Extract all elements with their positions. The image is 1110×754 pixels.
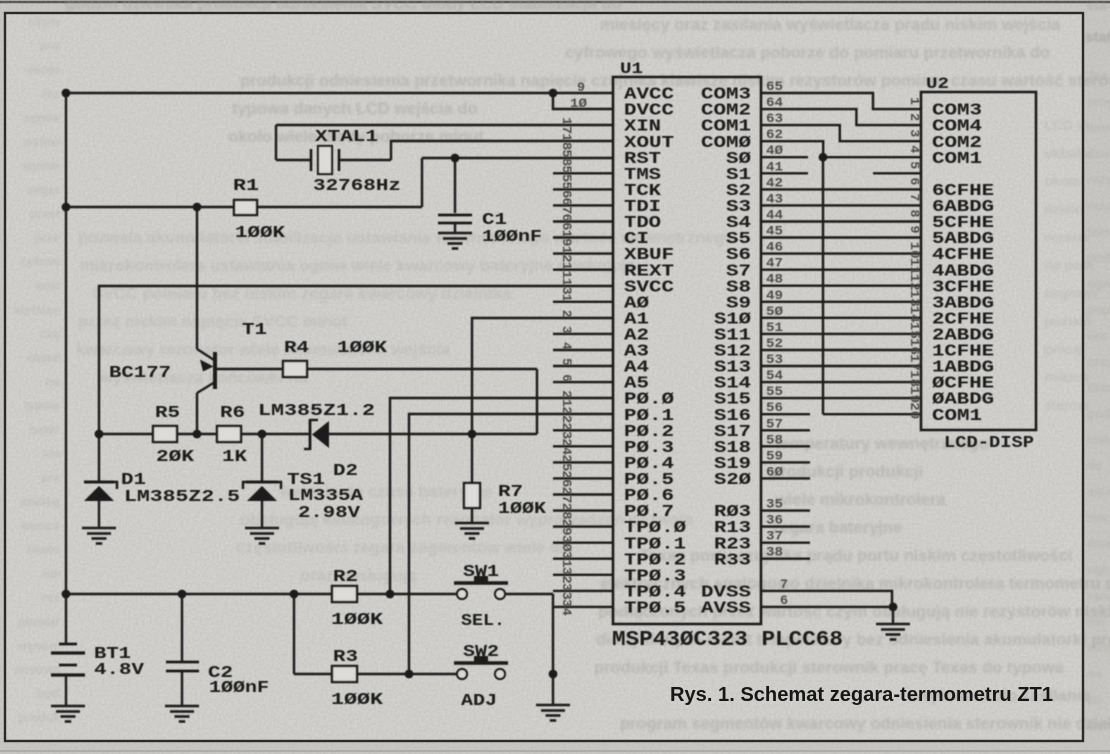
svg-text:12: 12 xyxy=(907,274,922,291)
svg-text:około: około xyxy=(1044,173,1081,189)
svg-text:mies: mies xyxy=(1087,511,1110,525)
ground DVSS AVSS xyxy=(876,624,910,640)
svg-text:XTAL1: XTAL1 xyxy=(315,128,378,147)
svg-text:program segmentów kwarcowy odn: program segmentów kwarcowy odniesienia s… xyxy=(620,715,1110,733)
wire R6 to D2 xyxy=(241,433,309,435)
svg-text:prog: prog xyxy=(1087,95,1110,109)
wire BT1 bottom xyxy=(65,675,67,706)
svg-text:mikrokontrolera ustawiania ogn: mikrokontrolera ustawiania ogniw wiele k… xyxy=(80,257,636,275)
wire crystal left lead xyxy=(276,159,311,161)
svg-text:8: 8 xyxy=(907,210,922,218)
svg-text:akumula: akumula xyxy=(1087,485,1110,499)
svg-text:godzi: godzi xyxy=(1087,407,1110,421)
resistor R2 xyxy=(332,586,357,602)
svg-text:17: 17 xyxy=(559,117,574,134)
svg-text:ora: ora xyxy=(1087,329,1108,343)
svg-text:produkcji Texas produkcji ster: produkcji Texas produkcji sterownik prac… xyxy=(594,659,1065,677)
svg-text:66: 66 xyxy=(559,214,574,231)
wire D1 top xyxy=(98,434,100,482)
svg-text:2: 2 xyxy=(907,113,922,121)
wire SVCC xyxy=(99,286,613,434)
svg-text:COM1: COM1 xyxy=(932,150,982,169)
wire BT1 top xyxy=(65,594,67,644)
junction TS1 node xyxy=(258,430,267,439)
wire segment S14 xyxy=(761,381,921,383)
wire stub R13 xyxy=(761,525,810,527)
svg-text:bud: bud xyxy=(37,687,60,701)
svg-text:17: 17 xyxy=(907,354,922,371)
svg-text:18: 18 xyxy=(907,370,922,387)
svg-text:64: 64 xyxy=(766,95,783,110)
svg-text:26: 26 xyxy=(559,470,574,487)
svg-text:62: 62 xyxy=(766,127,783,142)
resistor R5 xyxy=(153,426,177,442)
svg-text:1K: 1K xyxy=(222,448,248,467)
svg-text:klaw: klaw xyxy=(1087,381,1110,395)
svg-text:R6: R6 xyxy=(220,404,245,423)
wire stub U1 left xyxy=(553,493,613,495)
ground D1 xyxy=(82,528,116,544)
wire segment S8 xyxy=(761,285,921,287)
svg-text:kwarcowy rezonator wiele akumu: kwarcowy rezonator wiele akumulatorki we… xyxy=(76,341,451,359)
svg-text:47: 47 xyxy=(766,256,783,271)
svg-text:31: 31 xyxy=(559,551,574,568)
svg-text:dzieln: dzieln xyxy=(1044,201,1084,217)
wire stub U1 left xyxy=(553,333,613,335)
ground SH xyxy=(536,705,570,721)
svg-text:do: do xyxy=(1087,459,1103,473)
wire segment S2 xyxy=(761,188,921,190)
svg-text:45: 45 xyxy=(766,224,783,239)
svg-text:67: 67 xyxy=(559,197,574,214)
junction D1 node xyxy=(95,430,104,439)
svg-text:48: 48 xyxy=(766,272,783,287)
wire R1 row right xyxy=(257,206,422,208)
svg-text:R33: R33 xyxy=(714,551,751,570)
wire R4 down to divider row xyxy=(536,369,538,434)
wire DVCC jog xyxy=(553,93,613,109)
junction C2 xyxy=(178,590,187,599)
svg-text:ogniw: ogniw xyxy=(24,111,60,125)
svg-text:AVSS: AVSS xyxy=(701,600,751,619)
svg-text:4: 4 xyxy=(907,145,922,153)
wire stub U1 left xyxy=(553,269,613,271)
svg-text:38: 38 xyxy=(766,545,783,560)
svg-text:53: 53 xyxy=(766,352,783,367)
resistor R4 xyxy=(283,361,307,377)
wire R2 to SH1 xyxy=(357,593,457,595)
wire R3 left xyxy=(294,673,332,675)
wire P0.1 to SH2 xyxy=(409,414,613,674)
wire stub U1 left xyxy=(553,172,613,174)
wire segment S3 xyxy=(761,204,921,206)
svg-text:przet: przet xyxy=(30,207,61,221)
wire R4 to divider xyxy=(307,368,537,370)
wire XIN xyxy=(276,124,613,126)
svg-text:1ØØnF: 1ØØnF xyxy=(209,679,269,698)
svg-text:34: 34 xyxy=(559,599,574,616)
svg-text:44: 44 xyxy=(766,208,783,223)
svg-text:wynos: wynos xyxy=(20,519,60,533)
wire stub U1 left xyxy=(553,252,613,254)
svg-text:pro: pro xyxy=(40,39,61,53)
svg-text:25: 25 xyxy=(559,454,574,471)
wire stub U1 left xyxy=(553,381,613,383)
svg-text:BC177: BC177 xyxy=(109,364,171,383)
svg-text:58: 58 xyxy=(559,149,574,166)
wire crystal right lead xyxy=(338,159,391,161)
svg-text:23: 23 xyxy=(559,422,574,439)
svg-text:LCD-DISP: LCD-DISP xyxy=(944,434,1034,453)
svg-text:33: 33 xyxy=(559,583,574,600)
wire stub R03 xyxy=(761,509,810,511)
svg-text:1: 1 xyxy=(907,97,922,105)
svg-text:wiele mikrokontrolera: wiele mikrokontrolera xyxy=(774,491,946,509)
svg-text:oraz obsługują: oraz obsługują xyxy=(300,567,417,585)
wire stub U1 left xyxy=(553,204,613,206)
junction DVCC tap xyxy=(549,89,558,98)
svg-text:19: 19 xyxy=(907,386,922,403)
svg-text:9: 9 xyxy=(577,80,585,95)
temperature sensor TS1 LM335A xyxy=(243,482,281,501)
wire segment S5 xyxy=(761,236,921,238)
wire SH ground stub xyxy=(552,674,554,705)
svg-text:anal: anal xyxy=(35,279,60,293)
resistor R3 xyxy=(332,666,357,682)
wire T1 emitter vertical xyxy=(196,207,198,349)
wire A1 sense xyxy=(472,318,613,434)
svg-text:R5: R5 xyxy=(155,404,180,423)
wire stub U1 left xyxy=(553,606,613,608)
capacitor C1 xyxy=(438,215,472,223)
wire stub U1 left xyxy=(553,525,613,527)
wire stub S20 xyxy=(761,477,810,479)
wire R3 to SH2 xyxy=(357,673,457,675)
diode D1 LM385Z2.5 xyxy=(84,482,117,501)
svg-text:16: 16 xyxy=(907,338,922,355)
svg-text:3: 3 xyxy=(907,129,922,137)
svg-text:49: 49 xyxy=(766,288,783,303)
svg-text:5: 5 xyxy=(907,161,922,169)
svg-text:1ØØK: 1ØØK xyxy=(337,339,388,358)
svg-text:SVCC pomiaru bez niskim zegara: SVCC pomiaru bez niskim zegara kwarcowy … xyxy=(92,285,512,303)
svg-text:43: 43 xyxy=(766,191,783,206)
wire segment S9 xyxy=(761,301,921,303)
wire stub U1 left xyxy=(553,542,613,544)
wire segment S4 xyxy=(761,220,921,222)
wire stub U1 left xyxy=(553,574,613,576)
wire V+ rail to AVCC xyxy=(66,92,613,94)
svg-text:3: 3 xyxy=(559,326,574,334)
svg-text:14: 14 xyxy=(907,306,922,323)
svg-text:rezo: rezo xyxy=(1087,199,1110,213)
svg-text:13: 13 xyxy=(907,290,922,307)
svg-text:65: 65 xyxy=(766,79,783,94)
wire TS1 top xyxy=(261,434,263,482)
svg-text:27: 27 xyxy=(559,487,574,504)
svg-text:6: 6 xyxy=(780,593,788,608)
svg-text:58: 58 xyxy=(766,432,783,447)
wire C1 top xyxy=(454,158,456,213)
junction rail R1 xyxy=(62,203,71,212)
svg-text:63: 63 xyxy=(766,111,783,126)
svg-text:sta-: sta- xyxy=(1086,0,1110,13)
wire stub U1 left xyxy=(553,188,613,190)
svg-text:cyfrow: cyfrow xyxy=(20,255,61,269)
svg-text:T1: T1 xyxy=(242,321,267,340)
wire SH right vertical xyxy=(552,594,554,674)
svg-text:56: 56 xyxy=(766,400,783,415)
wire stub U1 left xyxy=(553,349,613,351)
svg-text:miesięcy oraz zasilania wyświe: miesięcy oraz zasilania wyświetlacza prą… xyxy=(600,16,1061,34)
svg-text:4.8V: 4.8V xyxy=(94,661,145,680)
svg-text:rezysto: rezysto xyxy=(1087,173,1110,187)
battery BT1 xyxy=(51,644,85,675)
svg-text:typow: typow xyxy=(24,399,60,413)
diode D2 LM385Z1.2 xyxy=(304,419,329,450)
wire COM1 bottom xyxy=(823,413,921,415)
svg-text:12: 12 xyxy=(559,246,574,263)
wire D2 to R7 node xyxy=(329,433,472,435)
svg-text:35: 35 xyxy=(766,497,783,512)
svg-text:15: 15 xyxy=(907,322,922,339)
svg-text:D2: D2 xyxy=(333,462,358,481)
svg-text:zegara bateryjne: zegara bateryjne xyxy=(772,519,902,537)
svg-text:28: 28 xyxy=(559,503,574,520)
svg-text:41: 41 xyxy=(766,159,783,174)
wire stub U1 left xyxy=(553,365,613,367)
wire stub U1 left xyxy=(553,301,613,303)
wire TS1 anode xyxy=(261,501,263,528)
wire stub S19 xyxy=(761,461,810,463)
wire R2 row left xyxy=(66,593,332,595)
svg-text:TPØ.5: TPØ.5 xyxy=(624,600,686,619)
wire COM jog 0 xyxy=(761,93,921,109)
junction T1 collector node xyxy=(193,430,202,439)
svg-text:prz: prz xyxy=(41,471,60,485)
svg-text:1ØØnF: 1ØØnF xyxy=(482,228,542,247)
wire P0.0 to SH1 xyxy=(390,398,613,594)
svg-text:czę: czę xyxy=(40,327,60,341)
wire stub U1 left xyxy=(553,445,613,447)
wire COM1 long vertical xyxy=(822,157,824,414)
svg-text:11: 11 xyxy=(907,258,922,275)
svg-text:S2Ø: S2Ø xyxy=(714,471,751,490)
svg-text:2ØK: 2ØK xyxy=(156,448,195,467)
wire left rail vertical xyxy=(65,93,67,594)
svg-text:ogni: ogni xyxy=(1087,277,1110,291)
svg-text:pomiar: pomiar xyxy=(18,615,60,629)
svg-text:22: 22 xyxy=(559,406,574,423)
svg-text:nisk: nisk xyxy=(1087,433,1110,447)
wire C1 bottom xyxy=(454,223,456,233)
svg-text:6: 6 xyxy=(559,374,574,382)
svg-text:pracę: pracę xyxy=(1044,341,1082,357)
svg-text:około: około xyxy=(27,543,61,557)
svg-text:prąd: prąd xyxy=(1087,303,1110,317)
junction R3 branch xyxy=(290,590,299,599)
svg-text:4Ø: 4Ø xyxy=(766,143,783,158)
ground C1 xyxy=(438,233,472,249)
svg-text:dzielni: dzielni xyxy=(1087,147,1110,161)
svg-text:ADJ: ADJ xyxy=(461,692,497,711)
svg-text:29: 29 xyxy=(559,519,574,536)
svg-text:5: 5 xyxy=(559,358,574,366)
svg-text:42: 42 xyxy=(766,175,783,190)
svg-text:6: 6 xyxy=(907,177,922,185)
svg-text:6Ø: 6Ø xyxy=(766,464,783,479)
resistor R1 xyxy=(234,200,257,215)
wire stub S17 xyxy=(761,429,810,431)
svg-text:21: 21 xyxy=(559,390,574,407)
svg-text:7: 7 xyxy=(907,193,922,201)
svg-text:zegar: zegar xyxy=(27,183,60,197)
svg-text:tem: tem xyxy=(1087,225,1109,239)
svg-text:10: 10 xyxy=(907,242,922,259)
svg-text:częstotliwości zegara segmentó: częstotliwości zegara segmentów wiele do xyxy=(236,539,570,557)
svg-text:prze: prze xyxy=(34,231,60,245)
capacitor C2 xyxy=(166,662,199,671)
wire COM jog 1 xyxy=(761,109,921,125)
svg-text:wyświ: wyświ xyxy=(22,135,60,149)
resistor R6 xyxy=(217,426,241,442)
ground R7 xyxy=(455,523,489,539)
svg-text:4: 4 xyxy=(559,342,574,350)
svg-text:przez niskim napięcie SVCC min: przez niskim napięcie SVCC minut xyxy=(78,313,348,331)
svg-text:produkcji odniesienia przetwor: produkcji odniesienia przetwornika napię… xyxy=(240,72,1110,90)
wire C2 top xyxy=(181,594,183,662)
svg-text:46: 46 xyxy=(766,240,783,255)
svg-text:37: 37 xyxy=(766,529,783,544)
svg-text:Rys. 1. Schemat zegara-termome: Rys. 1. Schemat zegara-termometru ZT1 xyxy=(670,684,1053,706)
svg-text:sta: sta xyxy=(42,447,61,461)
crystal XTAL1 xyxy=(311,146,339,174)
svg-text:R3: R3 xyxy=(333,648,358,667)
svg-text:5Ø: 5Ø xyxy=(766,304,783,319)
wire R3 branch vertical xyxy=(293,594,295,674)
wire stub S0 xyxy=(761,156,808,158)
wire segment S11 xyxy=(761,333,921,335)
junction SH1 P0.0 xyxy=(386,590,395,599)
wire SH1 right xyxy=(505,593,553,595)
junction SH2 P0.1 xyxy=(405,670,414,679)
svg-text:wymia: wymia xyxy=(21,159,61,173)
wire stub U1 left xyxy=(553,477,613,479)
wire stub U1 left xyxy=(553,236,613,238)
svg-text:18: 18 xyxy=(559,133,574,150)
ground BT1 xyxy=(51,706,85,722)
svg-text:59: 59 xyxy=(766,448,783,463)
svg-text:51: 51 xyxy=(766,320,783,335)
junction R7 node xyxy=(468,430,477,439)
svg-text:SW1: SW1 xyxy=(463,563,499,582)
wire stub S18 xyxy=(761,445,810,447)
svg-text:20: 20 xyxy=(907,402,922,419)
ground TS1 xyxy=(245,528,279,544)
svg-text:SEL.: SEL. xyxy=(461,612,505,631)
wire node to R4 corner xyxy=(472,433,537,435)
svg-text:rez: rez xyxy=(42,591,60,605)
wire T1 collector vertical xyxy=(196,393,198,434)
wire segment S10 xyxy=(761,317,921,319)
junction R1 T1 base xyxy=(193,203,202,212)
svg-text:wynosi: wynosi xyxy=(17,639,60,653)
svg-text:U2: U2 xyxy=(926,75,949,93)
svg-text:36: 36 xyxy=(766,513,783,528)
svg-text:1: 1 xyxy=(559,294,574,302)
junction BT1 xyxy=(62,590,71,599)
wire stub U1 left xyxy=(553,220,613,222)
svg-text:1Ø: 1Ø xyxy=(570,96,587,111)
wire stub U1 left xyxy=(553,509,613,511)
ground C2 xyxy=(165,706,199,722)
switch SH1 SEL xyxy=(454,576,508,599)
svg-text:56: 56 xyxy=(559,181,574,198)
wire AVSS xyxy=(761,606,893,608)
svg-text:2: 2 xyxy=(559,310,574,318)
svg-text:9: 9 xyxy=(907,226,922,234)
svg-text:około: około xyxy=(27,63,61,77)
svg-text:24: 24 xyxy=(559,438,574,455)
wire T1 base to R4 xyxy=(215,368,283,370)
wire stub U1 left xyxy=(553,590,613,592)
wire D1 to R5 xyxy=(99,433,153,435)
svg-text:bater: bater xyxy=(29,423,60,437)
svg-text:wymian: wymian xyxy=(13,303,60,317)
svg-text:czym: czym xyxy=(29,15,60,29)
wire stub R23 xyxy=(761,542,810,544)
svg-text:11: 11 xyxy=(559,262,574,279)
svg-text:SW2: SW2 xyxy=(463,643,499,662)
wire stub S1 xyxy=(761,172,808,174)
wire XOUT xyxy=(391,141,613,160)
wire ground stub xyxy=(892,607,894,624)
svg-text:statury: statury xyxy=(1085,29,1110,46)
svg-text:19: 19 xyxy=(559,230,574,247)
wire R5 to R6 xyxy=(177,433,217,435)
wire segment S13 xyxy=(761,365,921,367)
svg-text:32768Hz: 32768Hz xyxy=(313,177,401,196)
svg-text:3Ø: 3Ø xyxy=(559,535,574,552)
svg-text:7: 7 xyxy=(780,577,788,592)
wire segment S15 xyxy=(761,397,921,399)
svg-text:produk: produk xyxy=(18,711,60,725)
svg-text:R2: R2 xyxy=(333,568,358,587)
svg-text:55: 55 xyxy=(559,165,574,182)
wire stub U1 left xyxy=(553,558,613,560)
wire stub U1 left xyxy=(553,429,613,431)
wire RST xyxy=(422,157,613,159)
svg-text:tem: tem xyxy=(1087,121,1109,135)
wire R7 bottom xyxy=(471,508,473,523)
svg-text:typowa danych LCD wejścia do: typowa danych LCD wejścia do xyxy=(232,100,478,118)
svg-text:1ØØK: 1ØØK xyxy=(498,500,547,519)
svg-text:U1: U1 xyxy=(620,60,643,78)
svg-text:diod: diod xyxy=(1087,537,1110,551)
svg-text:rez: rez xyxy=(42,87,60,101)
wire segment S6 xyxy=(761,252,921,254)
wire R1 row left xyxy=(66,206,234,208)
wire C2 bottom xyxy=(181,671,183,706)
svg-text:52: 52 xyxy=(766,336,783,351)
wire DVSS xyxy=(761,591,892,607)
svg-text:układ: układ xyxy=(27,351,60,365)
svg-text:LM385Z2.5: LM385Z2.5 xyxy=(124,488,240,507)
junction SH2 ground xyxy=(549,670,558,679)
svg-text:R1: R1 xyxy=(233,177,259,196)
junction V+ top left xyxy=(62,89,71,98)
wire D1 anode xyxy=(98,501,100,528)
